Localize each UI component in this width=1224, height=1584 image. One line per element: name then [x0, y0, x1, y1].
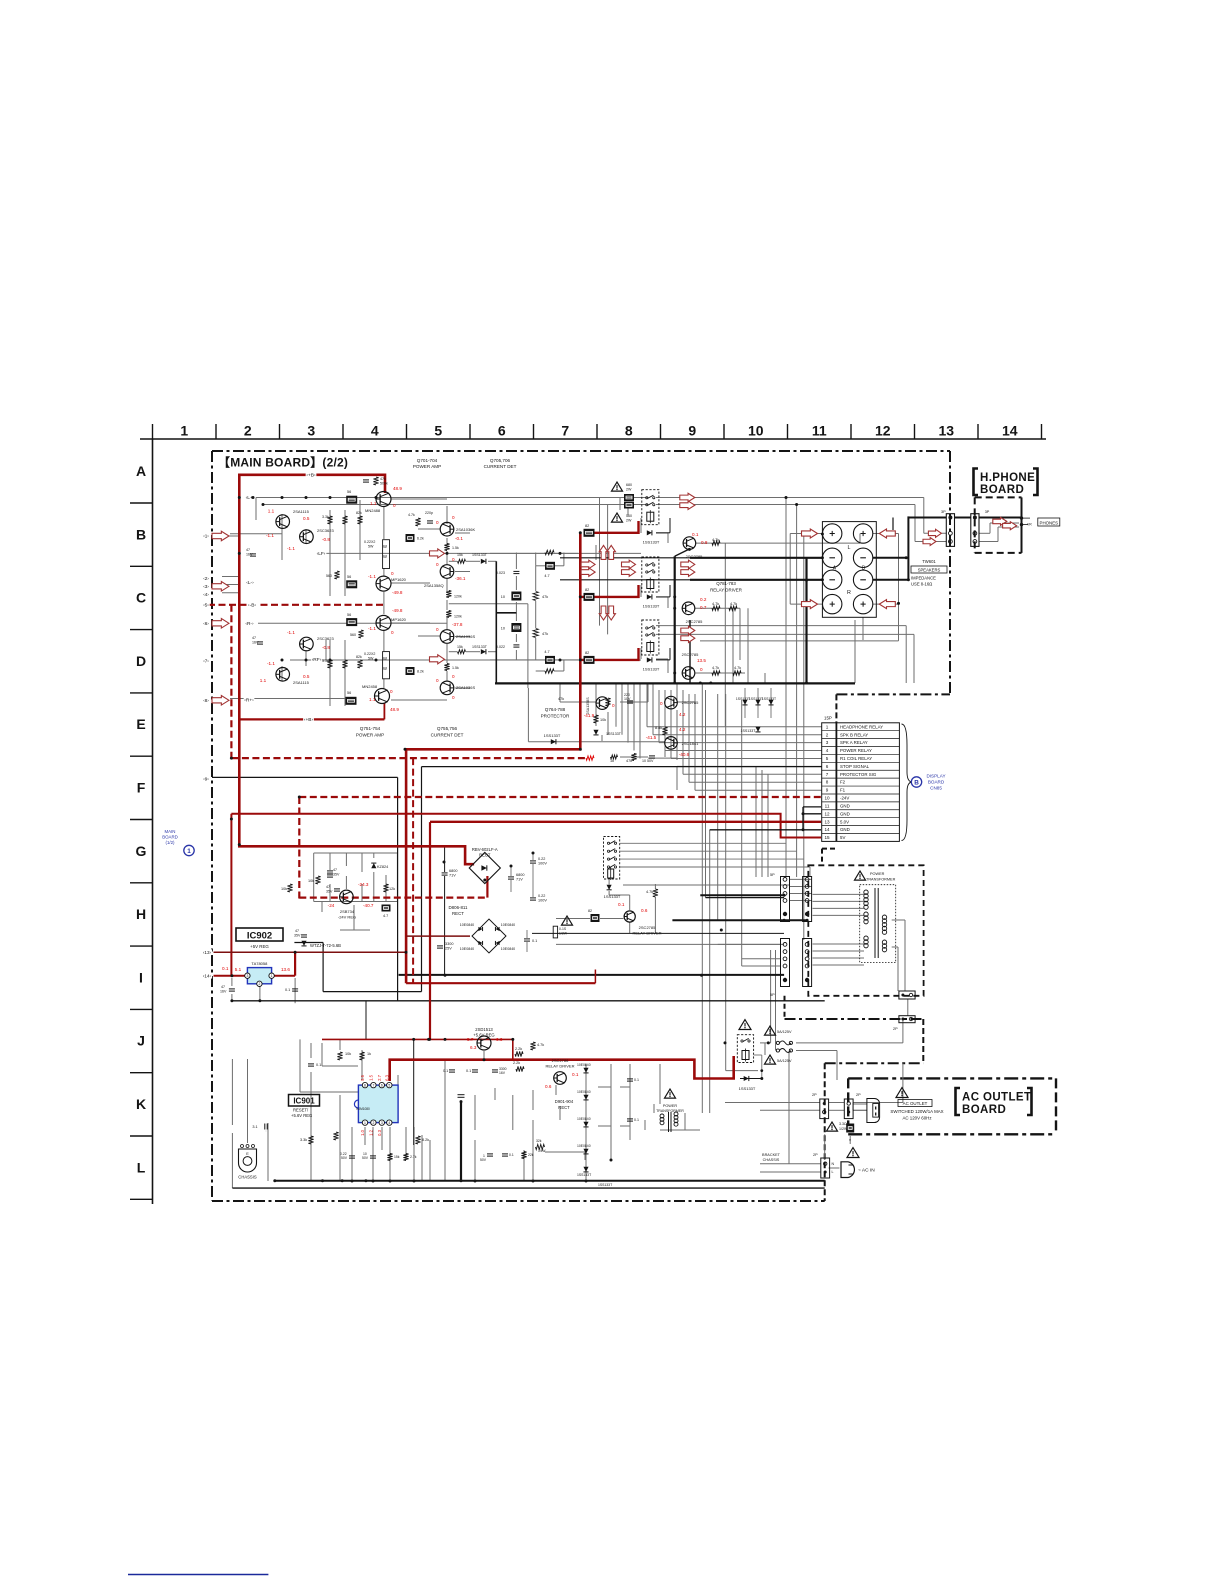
wire: [742, 958, 780, 960]
wire: [764, 673, 766, 683]
svg-text:POWER: POWER: [870, 872, 885, 876]
svg-text:47k: 47k: [558, 697, 564, 701]
svg-text:13.5: 13.5: [697, 658, 706, 663]
chevron <5>: [202, 602, 209, 608]
svg-text:3: 3: [307, 423, 315, 439]
wire: [755, 766, 757, 877]
transistor 2SC2785 relay driver mid: [624, 911, 635, 922]
junction: [305, 659, 308, 662]
svg-text:L: L: [832, 1170, 834, 1174]
wire: [656, 532, 668, 534]
svg-text:-40.7: -40.7: [363, 903, 374, 908]
wire: [767, 774, 769, 877]
wire: [383, 679, 385, 688]
svg-text:56: 56: [347, 575, 351, 579]
wire: [326, 552, 641, 554]
junction: [351, 1180, 354, 1183]
wire: [620, 756, 648, 758]
wire: [608, 891, 610, 895]
svg-text:2SC3623: 2SC3623: [317, 636, 334, 641]
svg-text:500k: 500k: [380, 482, 388, 486]
svg-text:R1 COIL RELAY: R1 COIL RELAY: [840, 756, 872, 761]
wire: [629, 1064, 631, 1140]
svg-text:+5.6V REG: +5.6V REG: [291, 1113, 312, 1118]
wire: [892, 518, 894, 531]
red vertical to -24V line dashed: [230, 605, 232, 758]
wire: [290, 659, 641, 661]
red resistor 1k on dashed line: [586, 756, 594, 760]
junction: [510, 865, 513, 868]
svg-text:RESET/: RESET/: [293, 1108, 309, 1113]
wire: [676, 710, 678, 760]
wire: [455, 636, 470, 638]
junction: [724, 1041, 727, 1044]
svg-text:560: 560: [350, 633, 356, 637]
wire: [694, 694, 696, 790]
junction: [412, 1038, 415, 1041]
wire: [732, 608, 734, 683]
junction: [294, 951, 297, 954]
svg-text:56: 56: [347, 613, 351, 617]
svg-text:NJM1080: NJM1080: [356, 1107, 370, 1111]
wire: [695, 789, 822, 791]
svg-text:POWER AMP: POWER AMP: [356, 733, 384, 738]
wire: [701, 683, 703, 895]
junction: [273, 1179, 276, 1182]
svg-text:(1/2): (1/2): [165, 840, 175, 845]
svg-text:1/4W: 1/4W: [538, 1149, 545, 1153]
svg-text:48.9: 48.9: [393, 486, 402, 491]
transistor 2SC3623 upper: [300, 530, 314, 544]
svg-text:-24V: -24V: [840, 796, 849, 801]
connector 2P outlet b: [844, 1099, 853, 1119]
power transformer label: [855, 871, 866, 880]
svg-text:D: D: [136, 653, 146, 669]
svg-text:10k: 10k: [600, 718, 606, 722]
svg-text:3.3k: 3.3k: [300, 1138, 307, 1142]
speaker terminal block TW601: [822, 522, 876, 618]
wire: [267, 1131, 269, 1160]
junction: [446, 552, 449, 555]
svg-text:10E0840: 10E0840: [577, 1117, 591, 1121]
junction: [532, 852, 535, 855]
svg-text:IC901: IC901: [293, 1097, 315, 1106]
wire: [671, 758, 822, 760]
wire: [726, 1070, 758, 1072]
svg-text:PROTECTOR: PROTECTOR: [541, 714, 570, 719]
junction: [443, 861, 446, 864]
transformer primary coils: [864, 890, 868, 894]
svg-text:USE 8-16Ω: USE 8-16Ω: [911, 582, 932, 587]
warning triangle ac outlet: [896, 1088, 908, 1098]
svg-text:0: 0: [612, 703, 615, 708]
svg-text:10: 10: [748, 423, 764, 439]
svg-text:15k: 15k: [394, 1155, 400, 1159]
ruler top line: [140, 438, 1046, 440]
wire: [717, 694, 719, 920]
svg-text:G: G: [136, 843, 147, 859]
wire: [267, 1160, 269, 1181]
svg-text:WTZJ-T-72-5.6B: WTZJ-T-72-5.6B: [310, 943, 341, 948]
svg-text:Q701-704: Q701-704: [417, 458, 438, 463]
wire: [418, 635, 440, 637]
svg-text:‹RF›: ‹RF›: [312, 657, 322, 663]
svg-text:3.3k: 3.3k: [322, 515, 329, 519]
svg-text:RELAY DRIVER: RELAY DRIVER: [546, 1064, 575, 1069]
svg-text:R: R: [847, 590, 851, 596]
wire: [535, 553, 537, 566]
svg-text:10k: 10k: [281, 887, 287, 891]
svg-text:AC OUTLET: AC OUTLET: [903, 1101, 928, 1106]
svg-text:3: 3: [826, 740, 829, 745]
svg-text:0: 0: [436, 627, 439, 632]
svg-text:+5.6V REG: +5.6V REG: [473, 1033, 494, 1038]
wire: [770, 950, 772, 1043]
wire: [345, 853, 347, 866]
svg-text:MAIN: MAIN: [165, 829, 176, 834]
svg-text:1SS133T: 1SS133T: [739, 1086, 756, 1091]
node B display board: [911, 777, 921, 787]
svg-text:TW601: TW601: [922, 559, 936, 564]
wire: [836, 1051, 838, 1081]
svg-text:CHASSIS: CHASSIS: [238, 1175, 257, 1180]
junction: [673, 682, 676, 685]
chevron <8>: [202, 697, 209, 703]
svg-text:BOARD: BOARD: [928, 780, 945, 785]
svg-text:35V: 35V: [326, 890, 333, 894]
phones jack: [1020, 517, 1023, 520]
svg-text:14: 14: [1002, 423, 1018, 439]
wire: [372, 1127, 374, 1181]
chevron LF: [316, 550, 327, 556]
red rect bridge rails: [406, 935, 470, 937]
speaker terminal -: [853, 548, 872, 567]
svg-text:0.1: 0.1: [692, 532, 699, 537]
svg-text:W: W: [383, 656, 387, 661]
power transformer dashed box: [808, 865, 923, 996]
wire: [907, 999, 909, 1016]
svg-text:82: 82: [585, 524, 589, 528]
junction: [821, 533, 824, 536]
svg-text:CURRENT DET: CURRENT DET: [484, 464, 517, 469]
transistor 2SC3623 lower: [300, 637, 314, 651]
wire: [413, 1039, 415, 1145]
svg-text:‹6›: ‹6›: [203, 621, 209, 626]
svg-text:10E0840: 10E0840: [501, 947, 515, 951]
svg-text:5P: 5P: [770, 873, 775, 877]
svg-text:1SS133T: 1SS133T: [643, 604, 660, 609]
svg-text:‹1›: ‹1›: [203, 534, 209, 539]
wire: [231, 978, 233, 986]
svg-text:-49.8: -49.8: [392, 590, 403, 595]
svg-text:120k: 120k: [454, 595, 462, 599]
svg-text:0.5: 0.5: [303, 516, 310, 521]
svg-text:5: 5: [388, 1084, 390, 1088]
wire: [908, 517, 946, 519]
wire: [873, 603, 899, 605]
wire: [656, 504, 915, 506]
wire: [788, 1102, 790, 1164]
wire: [446, 600, 448, 610]
svg-text:0.1: 0.1: [285, 988, 290, 992]
svg-text:SWITCHED 120W/1A MAX: SWITCHED 120W/1A MAX: [890, 1109, 943, 1114]
wire: [598, 1086, 611, 1088]
svg-text:H: H: [136, 906, 146, 922]
svg-text:-1.1: -1.1: [287, 546, 295, 551]
gnd bracket rows 11-14: [802, 807, 804, 830]
wire: [595, 712, 597, 726]
wire: [446, 618, 448, 630]
svg-text:H.PHONE: H.PHONE: [980, 472, 1035, 484]
svg-text:【MAIN BOARD】(2/2): 【MAIN BOARD】(2/2): [218, 455, 348, 470]
svg-text:VR: VR: [1027, 523, 1032, 527]
wire: [455, 571, 470, 573]
wire: [619, 498, 621, 511]
svg-text:2SA1036S: 2SA1036S: [456, 685, 475, 690]
wire: [294, 978, 296, 984]
svg-text:2SA1036S: 2SA1036S: [456, 634, 475, 639]
wire: [321, 902, 323, 913]
junction: [559, 552, 562, 555]
wire: [647, 683, 649, 702]
relay RY3: [642, 620, 659, 655]
svg-text:CN85: CN85: [930, 786, 942, 791]
junction: [579, 595, 582, 598]
chassis terminal: [239, 1149, 257, 1172]
wire: [351, 1127, 353, 1181]
svg-text:BRACKET: BRACKET: [762, 1153, 781, 1157]
svg-text:56: 56: [347, 490, 351, 494]
svg-text:82k: 82k: [356, 511, 362, 515]
wire: [785, 498, 787, 878]
wire: [444, 876, 446, 975]
svg-text:STOP SIGNAL: STOP SIGNAL: [840, 764, 870, 769]
wire: [706, 897, 785, 899]
svg-text:K: K: [136, 1096, 146, 1112]
transistor 2SA1036K q705: [440, 522, 454, 536]
svg-text:680: 680: [626, 483, 632, 487]
connector 3P hphone side: [971, 514, 979, 547]
ac in plug: [841, 1162, 854, 1178]
svg-text:2SC2785: 2SC2785: [686, 619, 703, 624]
junction: [673, 607, 676, 610]
wire: [299, 1039, 301, 1092]
red wire bridge to -24V: [486, 876, 488, 898]
junction: [511, 1038, 514, 1041]
wire: [474, 1095, 476, 1130]
svg-text:0.1: 0.1: [443, 1069, 448, 1073]
red +B rail: [239, 475, 474, 864]
wire: [421, 767, 423, 992]
boxed resistor 56 x4: [346, 496, 357, 504]
svg-text:A: A: [136, 463, 146, 479]
connector 2P border: [899, 1016, 915, 1023]
wire: [905, 626, 907, 683]
wire: [824, 1134, 826, 1160]
red IC901 thick rail: [390, 1056, 734, 1081]
svg-text:0: 0: [660, 701, 663, 706]
wire: [554, 565, 564, 567]
wire: [275, 1180, 825, 1182]
junction: [238, 496, 241, 499]
wire: [990, 522, 1019, 524]
svg-text:10V: 10V: [624, 697, 631, 701]
wire: [323, 991, 421, 993]
wire: [644, 1120, 646, 1130]
wire: [353, 905, 355, 930]
svg-text:48.9: 48.9: [390, 707, 399, 712]
svg-text:L: L: [848, 545, 851, 551]
svg-text:2P: 2P: [812, 1093, 817, 1097]
svg-text:1.1: 1.1: [370, 501, 377, 506]
speaker terminal -: [823, 570, 842, 589]
svg-text:47: 47: [252, 636, 256, 640]
wire: [600, 918, 624, 920]
wire: [677, 701, 695, 703]
svg-text:0.1: 0.1: [532, 939, 537, 943]
junction: [281, 659, 284, 662]
wire: [595, 683, 597, 712]
svg-text:0.1: 0.1: [634, 1078, 639, 1082]
svg-text:SPK B RELAY: SPK B RELAY: [840, 732, 868, 737]
wire: [559, 683, 561, 702]
wire: [585, 1064, 587, 1181]
svg-text:PHONES: PHONES: [1040, 520, 1059, 525]
junction: [298, 796, 301, 799]
caps 0.22 100V: [530, 860, 536, 862]
transistor Q703 relay driver 3 2SC2785: [682, 667, 695, 680]
wire: [796, 505, 798, 878]
wire: [535, 566, 537, 591]
svg-text:2W: 2W: [626, 519, 632, 523]
wire: [997, 527, 999, 542]
svg-text:5V: 5V: [840, 835, 845, 840]
svg-text:12: 12: [875, 423, 891, 439]
wire: [640, 518, 642, 533]
svg-text:‹2›: ‹2›: [203, 576, 209, 581]
svg-text:2SC2786: 2SC2786: [552, 1058, 569, 1063]
svg-text:‹+B›: ‹+B›: [306, 473, 316, 479]
wire: [676, 766, 678, 790]
svg-text:‹+B›: ‹+B›: [304, 717, 314, 723]
svg-text:1SS133T: 1SS133T: [762, 697, 776, 701]
wire: [709, 830, 711, 1113]
junction: [258, 999, 261, 1002]
wire: [496, 612, 516, 614]
wire: [322, 943, 324, 992]
svg-text:560: 560: [626, 514, 632, 518]
chevron <2>: [202, 575, 209, 581]
transistor Q702 relay driver 2 2SC2785: [682, 602, 695, 615]
hphone board border: [975, 496, 1022, 498]
svg-text:RBV-602LF-A: RBV-602LF-A: [472, 847, 498, 852]
svg-text:-0.8: -0.8: [322, 645, 330, 650]
svg-text:0.22X2: 0.22X2: [364, 652, 375, 656]
svg-text:I: I: [139, 969, 143, 985]
wire: [361, 853, 363, 872]
svg-text:Q764-788: Q764-788: [545, 707, 566, 712]
wire: [897, 947, 899, 991]
junction: [673, 595, 676, 598]
svg-text:1: 1: [271, 974, 273, 978]
wire: [930, 532, 946, 534]
svg-text:D901-904: D901-904: [555, 1099, 574, 1104]
wire: [852, 1103, 854, 1111]
svg-text:2P: 2P: [893, 1027, 898, 1031]
wire: [915, 541, 946, 543]
wire: [563, 660, 565, 671]
wire: [633, 683, 635, 751]
wire: [381, 1127, 383, 1150]
svg-text:D806-811: D806-811: [449, 905, 469, 910]
svg-text:50V: 50V: [480, 1158, 487, 1162]
ruler letter ticks: [130, 502, 153, 504]
wire: [313, 853, 315, 902]
resistor 10k reg: [315, 876, 320, 884]
junction: [559, 659, 562, 662]
svg-text:50V: 50V: [362, 1156, 369, 1160]
svg-text:15k: 15k: [457, 645, 463, 649]
svg-text:‹R+›: ‹R+›: [244, 697, 254, 703]
svg-text:47k: 47k: [542, 632, 548, 636]
svg-text:1.5k: 1.5k: [452, 546, 459, 550]
svg-text:10E0840: 10E0840: [577, 1090, 591, 1094]
svg-text:-1.1: -1.1: [368, 626, 376, 631]
svg-text:47: 47: [295, 929, 299, 933]
svg-text:0.3: 0.3: [377, 1129, 382, 1135]
svg-text:5A/125V: 5A/125V: [777, 1030, 792, 1034]
svg-text:0: 0: [436, 520, 439, 525]
wire: [488, 651, 496, 653]
svg-text:MN2458: MN2458: [362, 684, 378, 689]
svg-text:AC 120V 60Hz: AC 120V 60Hz: [902, 1116, 931, 1121]
wire: [532, 932, 784, 934]
svg-text:6.3: 6.3: [470, 1045, 477, 1050]
wire: [853, 1102, 903, 1104]
svg-text:BOARD: BOARD: [162, 835, 178, 840]
svg-text:W: W: [383, 554, 387, 559]
junction: [767, 1041, 770, 1044]
junction: [375, 496, 378, 499]
wire: [340, 929, 370, 931]
red TA78058 wires: [214, 951, 407, 953]
transistor 2SC2785 protector: [665, 696, 678, 709]
wire: [803, 531, 805, 940]
bridge rectifier RBV-602LF-A: [469, 852, 500, 883]
svg-text:HEADPHONE RELAY: HEADPHONE RELAY: [840, 724, 883, 729]
wire: [664, 690, 666, 751]
wire: [446, 538, 448, 544]
wire: [515, 650, 517, 660]
svg-text:5A/125V: 5A/125V: [777, 1059, 792, 1063]
wire: [396, 853, 398, 902]
svg-text:8: 8: [625, 423, 633, 439]
svg-text:1.5k: 1.5k: [452, 666, 459, 670]
resistor 3.3k bottom: [333, 1132, 338, 1140]
wire: [689, 781, 822, 783]
svg-text:2.2k: 2.2k: [513, 1061, 520, 1065]
svg-text:2SC2785: 2SC2785: [686, 554, 703, 559]
svg-text:3.1: 3.1: [252, 1125, 257, 1129]
IC901 label: [289, 1095, 320, 1107]
wire: [627, 683, 629, 743]
red relay supply bus: [406, 533, 580, 983]
svg-text:4.2: 4.2: [679, 712, 686, 717]
svg-text:11: 11: [812, 423, 827, 439]
svg-text:3300: 3300: [445, 942, 453, 946]
wire: [904, 920, 906, 991]
junction: [709, 682, 712, 685]
